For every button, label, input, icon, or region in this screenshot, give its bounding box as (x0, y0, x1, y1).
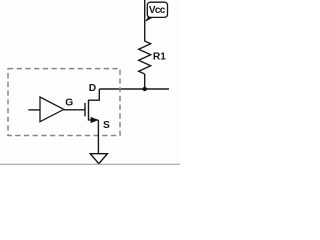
channel line (88, 100, 90, 121)
power flag Vcc (145, 2, 168, 22)
gate plate (84, 103, 86, 116)
ground (90, 154, 107, 164)
resistor R1 (139, 41, 151, 74)
svg-text:Vcc: Vcc (149, 5, 166, 16)
wire: source to ground (97, 120, 99, 154)
wire: Vcc supply vertical wire (144, 0, 146, 42)
wire: horizontal drain net (99, 88, 169, 90)
wire: resistor bottom to junction (144, 74, 146, 89)
wire: drain lead corner (89, 89, 100, 100)
transistor Q1 (NMOS) (85, 100, 99, 124)
svg-text:R1: R1 (153, 51, 166, 62)
svg-text:G: G (65, 97, 73, 108)
input stub wire (28, 109, 40, 111)
svg-text:D: D (89, 83, 96, 94)
svg-text:S: S (103, 120, 110, 131)
dashed box: module boundary (8, 69, 120, 136)
source lead with arrow (89, 119, 99, 121)
wire: gate lead (64, 109, 85, 111)
page edge line (0, 163, 180, 165)
node: junction dot (143, 87, 147, 91)
buffer U1 (28, 97, 64, 122)
